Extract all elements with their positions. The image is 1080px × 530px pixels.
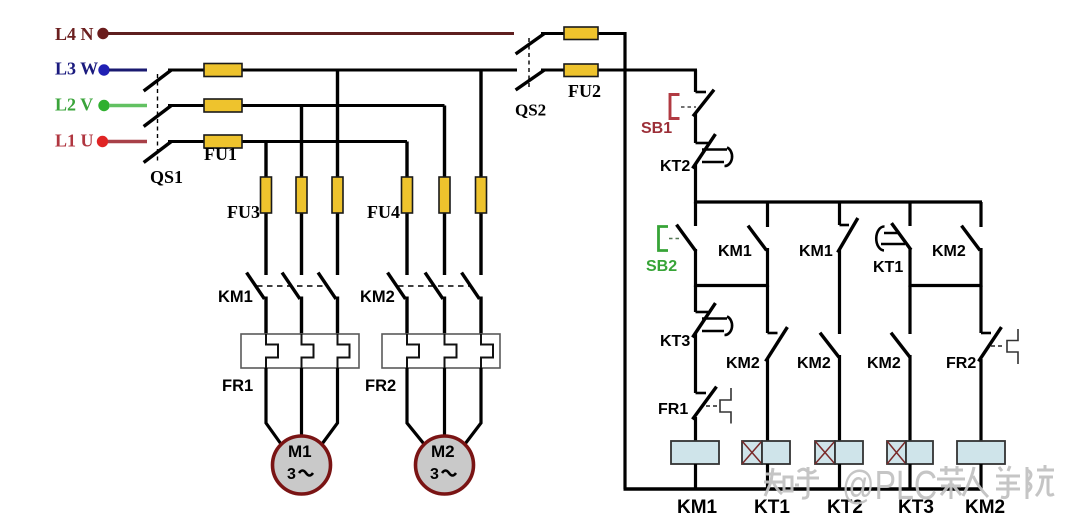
motor M2 [416,436,474,494]
pushbutton SB1 (stop, NC) [670,91,713,119]
svg-text:FR1: FR1 [658,401,688,418]
QS2 label [515,101,546,120]
wire neutral rail vertical [623,32,626,489]
wire column4 bus drop [908,202,911,226]
KM1 aux label (column2) [718,243,752,260]
contactor KM2 main contacts [389,274,479,298]
svg-text:KM1: KM1 [799,243,833,260]
wire column5 bus2 to FR2 [979,286,982,334]
svg-text:KM1: KM1 [677,497,718,518]
disconnect switch QS2 [517,35,543,90]
wire column3 to KT2 coil [838,355,841,442]
time relay contact KT1 (NO delayed) [876,225,910,251]
svg-text:M1: M1 [288,442,312,461]
coil KT2 label [827,497,863,518]
svg-text:QS2: QS2 [515,101,546,120]
contact KM1 auxiliary NC (column3) [839,220,858,252]
wire KT3 to FR1 [694,333,697,393]
wire motor M2 leads [407,368,481,444]
wire FR1 to KM1 coil [694,417,697,442]
KM2 main link dashed [398,285,470,287]
wire L3 after QS2 [541,69,697,72]
wire KM2 lower stubs [407,297,481,336]
svg-text:KT1: KT1 [754,497,790,518]
fuse FU3 (three cartridges) [261,177,344,213]
wire KM1 lower stubs [266,297,338,336]
FR2 contact label [946,355,976,372]
thermal contact FR2 (NC) [980,329,1019,365]
coil KM1 label [677,497,718,518]
wire L3 phase to QS2 [168,69,517,72]
svg-text:FU4: FU4 [367,202,400,222]
wire neutral rail bottom [624,487,983,491]
KT1 label [873,259,903,276]
wire column4 to bus2 [908,248,911,287]
coil KM2 [957,441,1005,464]
wire KT1 coil to rail [766,464,769,489]
FR2 label [365,377,396,395]
wire KM2 coil to rail [979,464,982,489]
watermark zhihu [764,465,1054,499]
svg-text:KT1: KT1 [873,259,903,276]
node L4 label [55,24,94,44]
wire KT2 coil to rail [838,464,841,489]
wire column1 bus to SB2 [694,202,697,226]
QS2 mechanical link dashed [528,38,530,88]
wire L2 phase [168,104,445,107]
FU3 label [227,202,260,222]
contact KM2 auxiliary NO (column4) [892,334,909,356]
FR1 heater elements [266,334,350,368]
wire column1 bus2 to KT3 [694,286,697,313]
QS1 label [150,167,183,187]
KT3 label [660,333,690,350]
fuse FU1 (three cartridges) [204,64,242,149]
FU1 label [204,144,237,164]
FU4 label [367,202,400,222]
node L2 label [55,95,93,115]
coil KT1 (time relay) [742,441,790,464]
wire L1 colored segment [108,140,147,144]
coil KM1 [671,441,719,464]
svg-text:KM2: KM2 [360,288,395,306]
svg-text:L2 V: L2 V [55,95,93,115]
svg-text:M2: M2 [431,442,455,461]
wire branch drop x481 from L3 [479,70,482,275]
wire SB1 to KT2 [694,113,697,143]
wire KT2 to bus [694,164,697,204]
SB1 label [641,120,672,137]
KM1 aux label (column3) [799,243,833,260]
wire SB2 to bus2 [694,249,697,287]
node L1 label [55,131,94,151]
svg-text:L1 U: L1 U [55,131,94,151]
wire branch drop x407 from L1 [405,142,408,276]
contact KM2 auxiliary NC (column2) [767,329,787,361]
wire column2 bus2 to KM2 contact [766,286,769,334]
KM2 aux label (column4 row2) [867,355,901,372]
wire column4 bus2 to KM2 contact [908,286,911,335]
svg-text:KM2: KM2 [867,355,901,372]
thermal relay FR2 heater box [382,334,500,368]
wire column2 to KT1 coil [766,359,769,442]
KM2 aux label (column3 row2) [797,355,831,372]
contact KM2 auxiliary NO (column3) [821,334,838,356]
wire column4 to KT3 coil [908,355,911,442]
thermal relay FR1 heater box [241,334,359,368]
coil KM2 label [965,497,1005,518]
wire column5 to KM2 coil [979,359,982,442]
FR2 heater elements [407,334,493,368]
SB2 label [646,258,677,275]
wire column2 to bus2 [766,248,769,287]
svg-text:FR2: FR2 [365,377,396,395]
wire control bus top [694,200,982,203]
wire column3 middle [838,250,841,334]
svg-text:L4 N: L4 N [55,24,94,44]
wire L1 phase [168,140,407,143]
thermal contact FR1 (NC) [694,388,732,424]
svg-text:FU2: FU2 [568,81,601,101]
KM1 main label [218,288,253,306]
FR1 contact label [658,401,688,418]
svg-text:FU3: FU3 [227,202,260,222]
wire branch drop x266 from L1 [264,142,267,276]
time relay contact KT3 (NC delayed) [694,305,733,337]
wire branch drop x301 from L2 [300,106,303,276]
svg-text:FU1: FU1 [204,144,237,164]
wire column3 bus drop [838,202,841,225]
wire bus2 right segment [909,284,983,287]
svg-text:L3 W: L3 W [55,59,98,79]
fuse FU4 (three cartridges) [402,177,487,213]
motor M1 [273,436,331,494]
svg-text:3: 3 [287,466,296,483]
coil KT3 (time relay) [887,441,933,464]
svg-text:SB2: SB2 [646,258,677,275]
svg-text:KM2: KM2 [965,497,1005,518]
contact KM1 auxiliary NO (column2) [749,227,766,249]
wire L4 after QS2 [541,32,625,35]
wire bus2 left segment [694,284,769,287]
coil KT2 (time relay) [815,441,863,464]
svg-text:SB1: SB1 [641,120,672,137]
svg-text:FR2: FR2 [946,355,976,372]
wire column2 bus drop [766,202,769,227]
watermark at-PLC text [842,462,937,508]
FR1 label [222,377,253,395]
coil KT1 label [754,497,790,518]
contactor KM1 main contacts [248,274,336,298]
time relay contact KT2 (NC delayed) [694,136,733,168]
KM1 main link dashed [257,285,327,287]
wire L3 colored segment [109,69,147,72]
svg-text:KT2: KT2 [660,158,690,175]
wire L2 colored segment [109,104,147,108]
contact KM2 auxiliary NO (column5) [963,227,980,249]
KT2 label [660,158,690,175]
KM2 aux label (column5) [932,243,966,260]
wire column5 to bus2 [979,248,982,287]
wire motor M1 leads [266,368,338,444]
wire control feed drop [694,70,697,92]
disconnect switch QS1 [145,71,170,162]
svg-text:@PLC: @PLC [842,462,937,508]
pushbutton SB2 (start, NO) [659,226,696,251]
node L4 terminal dot [97,28,108,39]
wire column5 bus drop [979,202,982,227]
svg-text:KM1: KM1 [218,288,253,306]
node L3 terminal dot [98,64,109,75]
node L3 label [55,59,98,79]
coil KT3 label [898,497,934,518]
wire branch drop x444 from L2 [443,106,446,276]
svg-text:QS1: QS1 [150,167,183,187]
svg-text:3: 3 [430,466,439,483]
svg-text:KM2: KM2 [932,243,966,260]
svg-text:FR1: FR1 [222,377,253,395]
fuse FU2 (two cartridges) [564,27,598,77]
svg-text:KM2: KM2 [726,355,760,372]
node L1 terminal dot [97,136,108,147]
KM2 aux label (column2 row2) [726,355,760,372]
KM2 main label [360,288,395,306]
node L2 terminal dot [98,100,109,111]
wire KT3 coil to rail [908,464,911,489]
wire L4 neutral line [108,32,514,35]
wire branch drop x337 from L3 [336,70,339,275]
svg-text:KM2: KM2 [797,355,831,372]
svg-text:KM1: KM1 [718,243,752,260]
svg-text:KT3: KT3 [660,333,690,350]
wire KM1 coil to rail [694,464,697,489]
QS1 mechanical link dashed [157,74,159,163]
FU2 label [568,81,601,101]
